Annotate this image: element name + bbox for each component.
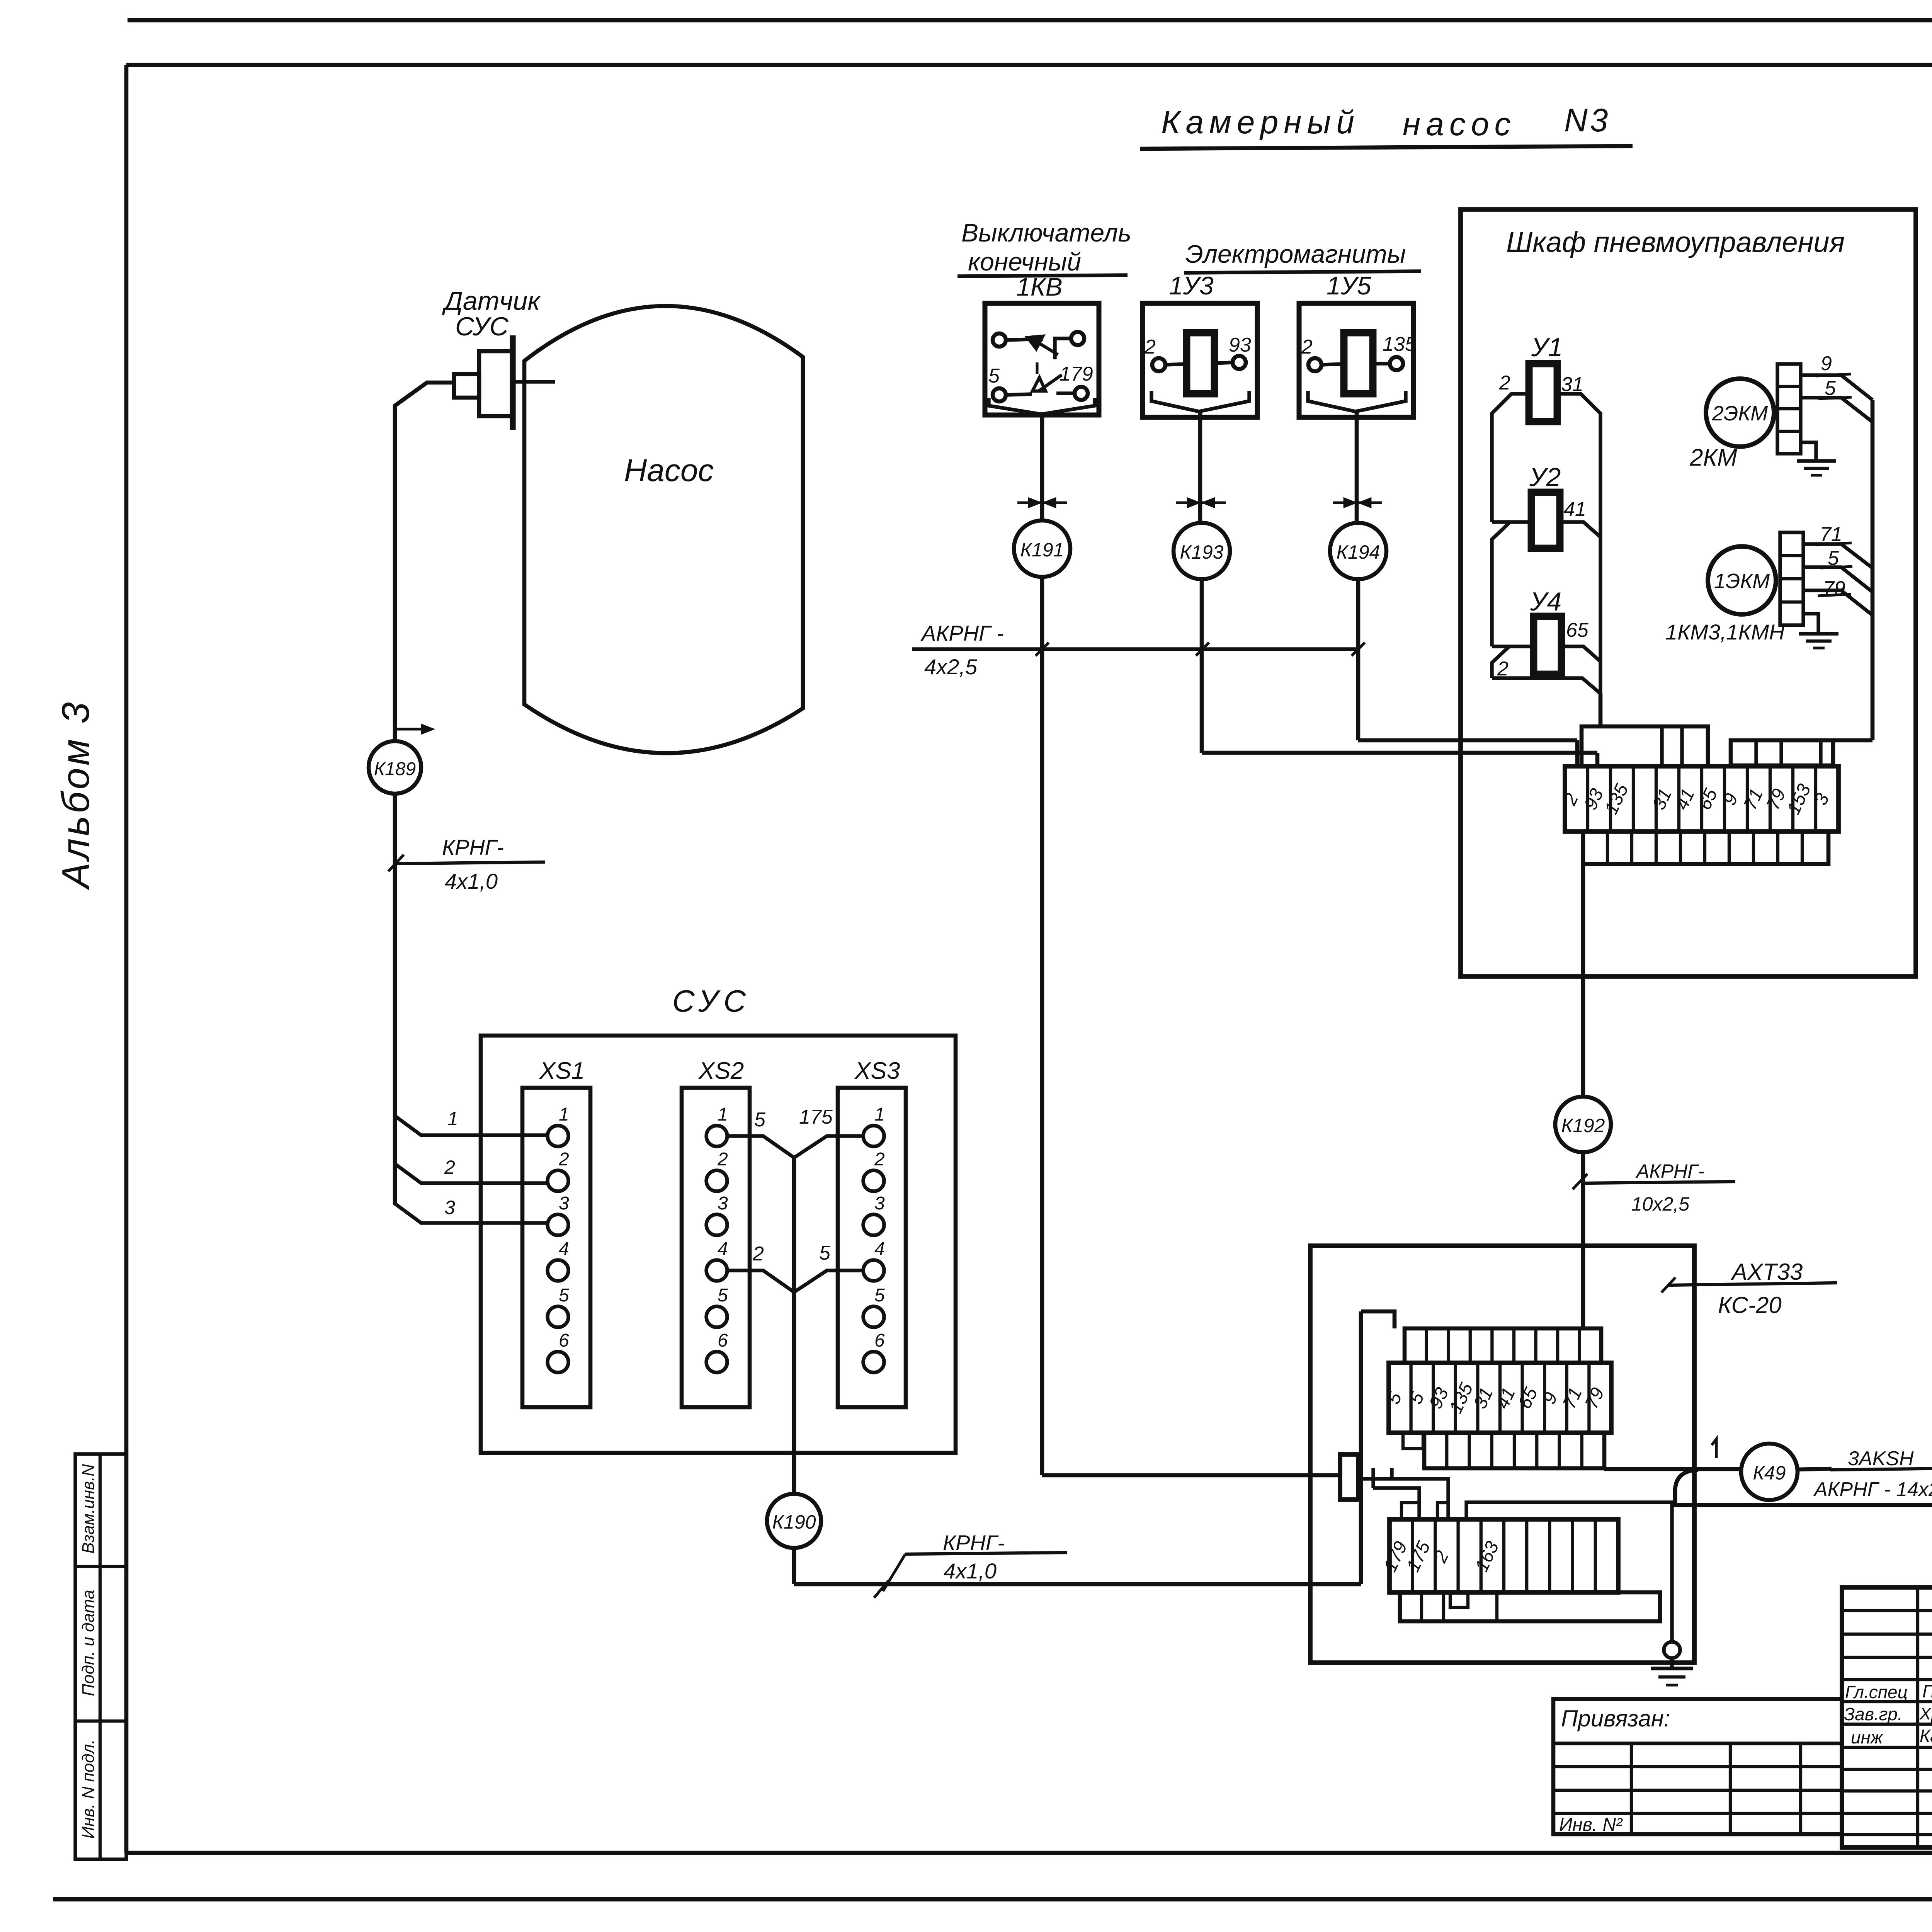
svg-text:5: 5: [874, 1285, 885, 1306]
XS3 pin 1: [863, 1126, 884, 1146]
svg-text:1КВ: 1КВ: [1016, 272, 1063, 301]
pressure gauge 2ЭКМ: [1706, 379, 1774, 447]
XS3 pin 4: [863, 1260, 884, 1281]
wire 1ЭКМ pin 71: [1803, 544, 1872, 568]
cable marker К194: [1330, 523, 1386, 579]
svg-text:К193: К193: [1180, 541, 1224, 563]
wire 1ЭКМ pin 79: [1803, 590, 1872, 615]
cable break mark: [1333, 501, 1382, 504]
XS2 pin 5: [706, 1306, 727, 1327]
svg-text:1: 1: [718, 1104, 728, 1125]
lower strip top connectors: [1401, 1503, 1419, 1519]
svg-text:175: 175: [799, 1106, 833, 1128]
wire 2ЭКМ pin 9: [1801, 375, 1872, 400]
svg-text:6: 6: [718, 1330, 728, 1351]
svg-text:Выключатель: Выключатель: [961, 218, 1131, 247]
wire К192 from strip: [1581, 864, 1585, 1097]
cable marker К49: [1741, 1444, 1798, 1500]
svg-text:Привязан:: Привязан:: [1561, 1706, 1670, 1731]
pump tank Насос: [524, 306, 803, 753]
1У3 terminals: [1152, 358, 1165, 371]
svg-text:3: 3: [718, 1193, 728, 1214]
XS1 pin 1: [548, 1126, 568, 1146]
cabinet top connector group 2: [1731, 740, 1833, 765]
svg-text:У1: У1: [1531, 333, 1563, 362]
svg-text:41: 41: [1672, 786, 1699, 813]
XS2 pin 3: [706, 1214, 727, 1235]
svg-text:АХТ33: АХТ33: [1731, 1259, 1803, 1285]
svg-text:179: 179: [1380, 1538, 1412, 1575]
У chain cell 3 outline: [1492, 646, 1509, 678]
pressure gauge 1ЭКМ: [1708, 546, 1776, 614]
cable marker К192: [1555, 1097, 1611, 1152]
svg-text:КС-20: КС-20: [1718, 1292, 1782, 1318]
svg-text:XS3: XS3: [854, 1058, 900, 1084]
svg-text:К49: К49: [1753, 1462, 1786, 1484]
svg-text:К189: К189: [374, 759, 416, 779]
svg-text:4х2,5: 4х2,5: [924, 655, 978, 679]
svg-text:Зав.гр.: Зав.гр.: [1844, 1704, 1903, 1724]
svg-text:9: 9: [1539, 1389, 1561, 1407]
svg-text:3AKSH: 3AKSH: [1848, 1447, 1914, 1470]
svg-text:2: 2: [444, 1156, 455, 1178]
svg-text:175: 175: [1403, 1538, 1434, 1575]
svg-text:5: 5: [754, 1109, 766, 1131]
1У3 cable entry: [1151, 391, 1249, 412]
hook under first cell: [1403, 1433, 1423, 1449]
solenoid У2: [1531, 492, 1560, 548]
КС-20 upper terminal strip: [1389, 1363, 1611, 1433]
1У5 coil: [1344, 333, 1373, 394]
wire К189 down: [393, 794, 397, 1205]
jog connector: [1340, 1454, 1358, 1500]
wire АКРНГ bus: [912, 647, 1358, 651]
XS2 pin 4: [706, 1260, 727, 1281]
svg-text:Инв. N подл.: Инв. N подл.: [79, 1739, 98, 1838]
svg-text:1У5: 1У5: [1327, 271, 1371, 300]
svg-text:179: 179: [1060, 363, 1093, 385]
svg-text:71: 71: [1740, 786, 1767, 813]
junction box КС-20: [1310, 1246, 1694, 1663]
svg-text:Датчик: Датчик: [442, 286, 541, 316]
svg-text:2КМ: 2КМ: [1689, 444, 1737, 471]
svg-text:4: 4: [559, 1239, 569, 1259]
cable tick: [1196, 643, 1209, 656]
cable marker К190: [767, 1494, 821, 1548]
svg-text:СУС: СУС: [672, 984, 751, 1018]
wire junction to К190: [792, 1158, 796, 1494]
svg-text:1У3: 1У3: [1169, 271, 1214, 300]
svg-text:135: 135: [1383, 333, 1417, 355]
svg-text:АКРНГ-: АКРНГ-: [1635, 1160, 1704, 1182]
cabinet bottom connectors: [1583, 832, 1828, 864]
КС-20 upper bottom connectors: [1424, 1433, 1604, 1468]
svg-text:У2: У2: [1529, 463, 1561, 492]
svg-text:163: 163: [1471, 1538, 1503, 1575]
svg-text:КРНГ-: КРНГ-: [943, 1531, 1005, 1555]
svg-text:2: 2: [717, 1149, 728, 1170]
XS3 pin 5: [863, 1306, 884, 1327]
wire К191 down to КС-20 box: [1040, 577, 1044, 1475]
wire 1ЭКМ pin 5: [1803, 567, 1872, 592]
svg-text:Подп. и дата: Подп. и дата: [79, 1590, 98, 1696]
svg-text:К191: К191: [1020, 539, 1064, 561]
svg-text:65: 65: [1566, 619, 1589, 641]
svg-text:N3: N3: [1564, 102, 1610, 138]
ground 2КМ: [1801, 442, 1816, 461]
svg-text:1КМ3,1КМН: 1КМ3,1КМН: [1665, 620, 1785, 644]
cabinet terminal strip: [1565, 766, 1838, 832]
svg-text:2ЭКМ: 2ЭКМ: [1712, 402, 1768, 425]
cable marker К193: [1173, 523, 1230, 579]
У chain divider 2-3: [1492, 645, 1534, 648]
XS3 pin 3: [863, 1214, 884, 1235]
svg-text:Насос: Насос: [624, 453, 714, 488]
ground node: [1664, 1642, 1680, 1658]
solenoid У4: [1534, 616, 1561, 674]
svg-text:9: 9: [1821, 352, 1832, 375]
wire К192 to КС-20: [1581, 1152, 1585, 1330]
1У5 cable entry: [1308, 391, 1406, 412]
wire gauge bus down: [1871, 400, 1875, 740]
1КВ cable entry: [989, 398, 1095, 414]
svg-text:инж: инж: [1851, 1727, 1884, 1747]
cabinet top connector group 1: [1582, 726, 1708, 766]
wire У chain to terminals: [1599, 694, 1603, 728]
svg-text:Кадыково: Кадыково: [1920, 1726, 1932, 1746]
svg-text:1ЭКМ: 1ЭКМ: [1714, 570, 1770, 593]
svg-text:4х1,0: 4х1,0: [944, 1559, 997, 1583]
КС-20 upper top connectors: [1405, 1328, 1601, 1363]
1ЭКМ terminal stack: [1780, 532, 1803, 625]
sensor СУС body: [454, 374, 479, 398]
svg-text:5: 5: [1825, 377, 1836, 400]
XS1 pin 6: [548, 1352, 568, 1372]
wire to К49: [1604, 1467, 1741, 1471]
cable break mark: [1017, 501, 1067, 504]
cable tick: [1352, 643, 1365, 656]
svg-text:2: 2: [1301, 336, 1313, 358]
svg-text:2: 2: [752, 1243, 764, 1265]
svg-text:2: 2: [1499, 372, 1510, 394]
svg-text:5: 5: [1405, 1389, 1428, 1407]
svg-text:5: 5: [559, 1285, 569, 1306]
2ЭКМ terminal stack: [1777, 364, 1801, 454]
title block table: [1842, 1587, 1932, 1847]
svg-text:135: 135: [1601, 781, 1633, 818]
wire 2 to XS1.2: [395, 1164, 548, 1183]
XS2 pin 1: [706, 1126, 727, 1146]
svg-text:Взам.инв.N: Взам.инв.N: [79, 1464, 98, 1554]
svg-text:5: 5: [819, 1242, 831, 1264]
svg-text:У4: У4: [1530, 587, 1561, 616]
limit switch 1КВ box: [985, 303, 1099, 415]
svg-text:КРНГ-: КРНГ-: [442, 835, 504, 859]
XS3 pin 2: [863, 1170, 884, 1191]
Привязан box: [1553, 1699, 1842, 1834]
left stamp column: [75, 1454, 126, 1859]
svg-text:К192: К192: [1561, 1115, 1605, 1136]
svg-text:Потехин: Потехин: [1922, 1681, 1932, 1701]
sensor flange: [510, 335, 515, 430]
svg-text:71: 71: [1559, 1384, 1586, 1412]
svg-text:Хрипишкино: Хрипишкино: [1919, 1704, 1932, 1723]
svg-text:2: 2: [558, 1149, 569, 1170]
svg-text:СУС: СУС: [455, 312, 509, 341]
У chain cell 1 outline: [1492, 394, 1529, 522]
border frame: [128, 18, 1932, 22]
wire XS2.1 - XS3.1: [727, 1136, 863, 1158]
XS1 pin 3: [548, 1214, 568, 1235]
cable marker К191: [1014, 520, 1070, 577]
XS2 pin 2: [706, 1170, 727, 1191]
svg-text:Гл.спец: Гл.спец: [1845, 1682, 1908, 1702]
svg-text:Инв. N²: Инв. N²: [1559, 1815, 1623, 1835]
svg-text:1: 1: [559, 1104, 569, 1125]
svg-text:XS2: XS2: [698, 1058, 744, 1084]
hook under cell 2: [1450, 1592, 1468, 1607]
cabinet Шкаф пневмоуправления box: [1461, 209, 1916, 976]
wire U-turn to К48 line: [1675, 1470, 1932, 1505]
wire 1У5 to К194: [1355, 412, 1359, 523]
cable tick: [1036, 643, 1049, 656]
СУС box: [481, 1036, 956, 1453]
XS2 pin 6: [706, 1352, 727, 1372]
XS1 pin 5: [548, 1306, 568, 1327]
cable label АКРНГ-10х2,5: [1573, 1174, 1587, 1189]
У chain cell 2 outline: [1492, 522, 1510, 646]
electromagnet 1У5 box: [1299, 303, 1413, 417]
electromagnet 1У3 box: [1143, 303, 1257, 417]
svg-text:3: 3: [1810, 790, 1833, 808]
XS1 pin 2: [548, 1170, 568, 1191]
svg-text:4: 4: [718, 1239, 728, 1259]
wire К194 to terminal 2: [1356, 579, 1361, 740]
У chain divider 1-2: [1492, 520, 1531, 524]
1КВ contact circles: [993, 333, 1006, 347]
КС-20 lower terminal strip: [1389, 1519, 1618, 1592]
wire to ground: [1466, 1502, 1672, 1641]
svg-text:Альбом 3: Альбом 3: [54, 700, 97, 890]
svg-text:Электромагниты: Электромагниты: [1185, 240, 1406, 268]
svg-text:79: 79: [1581, 1384, 1609, 1412]
wire К49 right stub: [1798, 1469, 1832, 1469]
svg-text:К190: К190: [772, 1511, 816, 1533]
svg-text:Камерный: Камерный: [1161, 104, 1360, 140]
cable break mark: [1176, 501, 1226, 504]
svg-text:65: 65: [1694, 786, 1722, 813]
svg-text:насос: насос: [1403, 106, 1516, 142]
svg-text:5: 5: [718, 1285, 728, 1306]
svg-text:2: 2: [1144, 336, 1156, 358]
solenoid У1: [1529, 364, 1557, 422]
wire 2ЭКМ pin 5: [1801, 398, 1872, 422]
svg-text:XS1: XS1: [539, 1058, 585, 1084]
wire sensor to К189: [395, 383, 454, 741]
svg-text:АКРНГ -: АКРНГ -: [920, 621, 1004, 645]
1У3 coil: [1187, 333, 1214, 394]
svg-text:1: 1: [874, 1104, 885, 1125]
svg-text:41: 41: [1564, 498, 1586, 520]
wire XS2.4 - XS3.4: [727, 1270, 863, 1292]
core mark 1: [1712, 1439, 1716, 1458]
cable marker К189: [369, 741, 421, 794]
svg-text:1: 1: [447, 1108, 458, 1129]
svg-text:93: 93: [1229, 334, 1251, 356]
svg-text:3: 3: [559, 1193, 569, 1214]
svg-text:65: 65: [1514, 1384, 1542, 1412]
svg-text:2: 2: [874, 1149, 885, 1170]
svg-text:АКРНГ - 14х2,5: АКРНГ - 14х2,5: [1813, 1478, 1932, 1501]
svg-text:5: 5: [988, 365, 1000, 387]
svg-text:4: 4: [874, 1239, 885, 1259]
svg-text:3: 3: [444, 1197, 455, 1218]
svg-text:6: 6: [874, 1330, 885, 1351]
svg-text:3: 3: [874, 1193, 885, 1214]
XS1 pin 4: [548, 1260, 568, 1281]
internal bus: [1359, 1311, 1363, 1584]
1У5 terminals: [1308, 358, 1321, 371]
У chain bottom: [1492, 678, 1600, 694]
svg-text:К194: К194: [1337, 541, 1380, 563]
XS3 pin 6: [863, 1352, 884, 1372]
svg-text:9: 9: [1719, 790, 1742, 808]
wire 1У3 to К193: [1198, 412, 1202, 523]
svg-text:10х2,5: 10х2,5: [1631, 1193, 1689, 1215]
wire 3 to XS1.3: [395, 1204, 548, 1223]
wire 1 to XS1.1: [395, 1116, 548, 1135]
КС-20 lower bottom connectors: [1400, 1592, 1660, 1621]
internal step wires: [1390, 1468, 1393, 1479]
wire К190 to КС-20: [792, 1548, 796, 1584]
svg-text:4х1,0: 4х1,0: [445, 869, 498, 893]
svg-text:2: 2: [1430, 1548, 1453, 1566]
ground 1КМН: [1803, 614, 1818, 634]
svg-text:41: 41: [1492, 1384, 1520, 1412]
svg-text:6: 6: [559, 1330, 569, 1351]
break arrow: [397, 728, 422, 730]
svg-text:Шкаф пневмоуправления: Шкаф пневмоуправления: [1506, 226, 1845, 258]
1КВ switch contacts: [1006, 339, 1043, 340]
wire К193 to terminal 93: [1200, 579, 1204, 753]
svg-text:31: 31: [1649, 786, 1676, 813]
svg-text:конечный: конечный: [968, 247, 1081, 276]
wire 1КВ to К191: [1039, 414, 1043, 417]
